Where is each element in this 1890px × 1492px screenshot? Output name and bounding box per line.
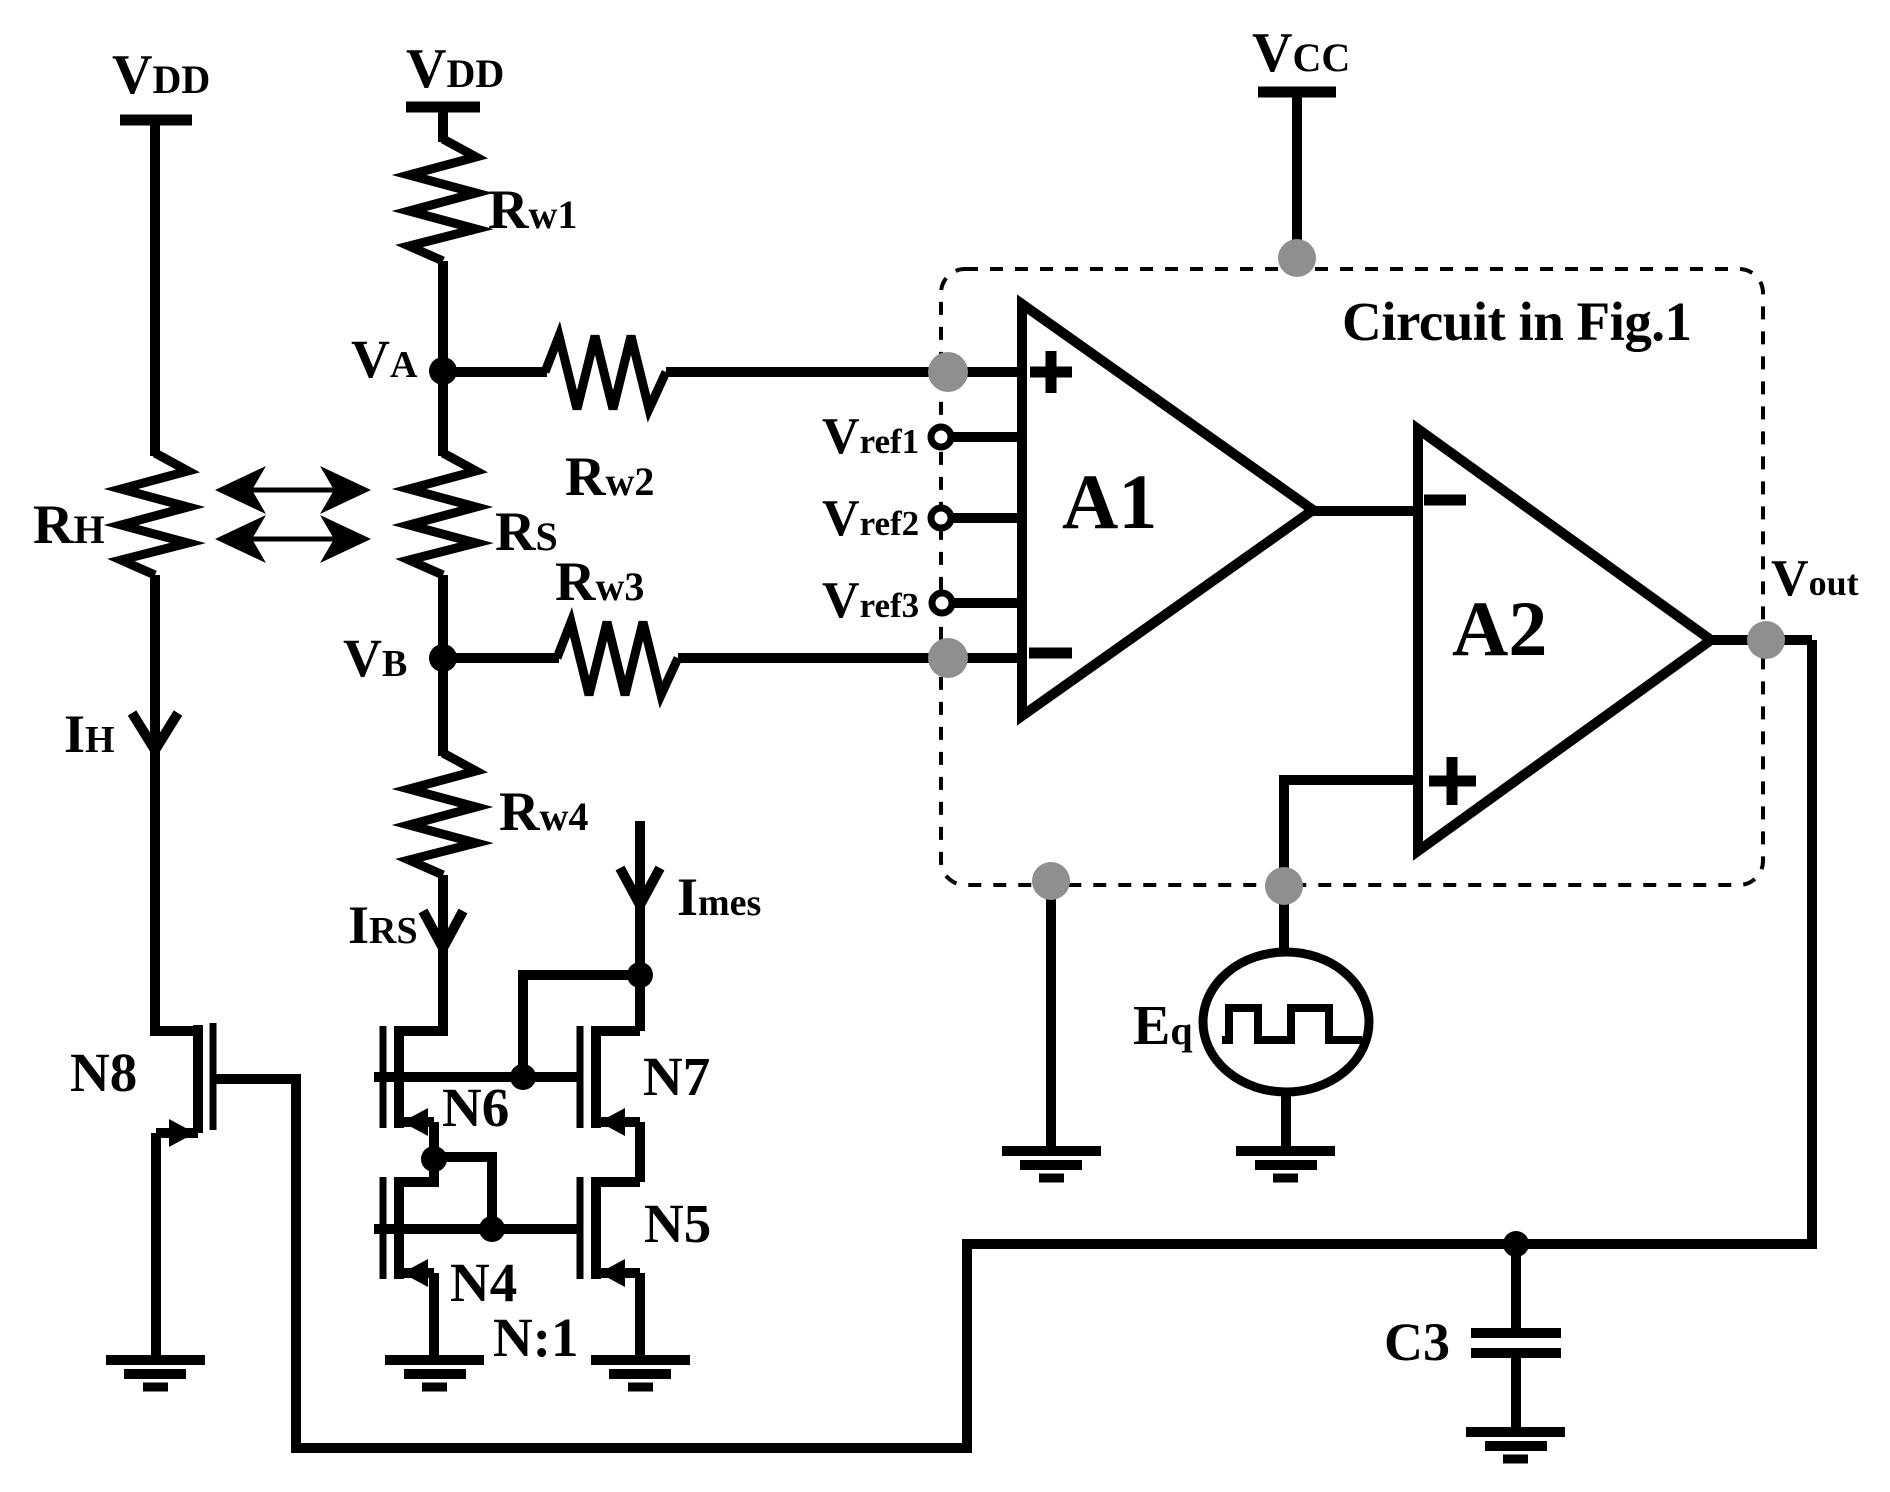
pin Vref3 — [932, 593, 1022, 613]
power symbol VDD (middle rail) — [406, 102, 480, 113]
resistor Rw3 — [557, 622, 678, 695]
wire A1 output to A2 minus input — [1310, 506, 1418, 516]
wire RS to node VB — [438, 575, 448, 658]
wire N8 source to ground — [151, 1133, 161, 1356]
current arrow IH — [132, 713, 178, 750]
resistor RH — [121, 453, 188, 575]
wire A2 plus input to Eq — [1284, 780, 1418, 890]
resistor RS — [409, 453, 476, 575]
op-amp A2 — [1418, 429, 1711, 851]
transistor N5 — [580, 1177, 640, 1287]
svg-text:N4: N4 — [450, 1252, 517, 1313]
plus sign A2 — [1429, 757, 1476, 805]
node on gate net N4-N5 — [479, 1216, 505, 1242]
ground (N5) — [591, 1360, 690, 1387]
svg-text:N:1: N:1 — [493, 1307, 579, 1368]
wire RH to N8 drain — [155, 575, 196, 1031]
transistor N4 — [383, 1177, 434, 1287]
current arrow IRS — [423, 911, 463, 948]
wire N6 source down — [429, 1122, 439, 1160]
resistor Rw1 — [409, 139, 476, 261]
node on Imes wire — [627, 962, 653, 988]
wire diode-connect N4 — [434, 1157, 492, 1229]
coupling arrow (upper double-headed) — [215, 466, 371, 514]
pin Vref1 — [931, 427, 1022, 447]
node on gate net — [510, 1064, 536, 1090]
wire N4 source to ground — [429, 1273, 439, 1356]
node dot VCC on dashed boundary — [1278, 239, 1316, 277]
power symbol VCC — [1258, 87, 1336, 98]
minus sign A2 — [1424, 495, 1466, 506]
wire dashed-box ground stub — [1046, 881, 1056, 1151]
wire Eq to ground — [1281, 1092, 1291, 1151]
transistor N7 — [580, 1026, 640, 1136]
wire C3 to ground — [1511, 1353, 1521, 1432]
svg-text:C3: C3 — [1384, 1312, 1450, 1372]
wire Rw3 to A1 minus input — [678, 653, 1022, 663]
coupling arrow (lower double-headed) — [215, 515, 371, 563]
node (N6 source / N4 drain) — [421, 1146, 447, 1172]
wire Rw2 to A1 plus input — [666, 367, 1022, 377]
svg-text:A2: A2 — [1452, 585, 1547, 672]
resistor Rw4 — [409, 753, 476, 875]
wire N7 source to N5 drain — [635, 1122, 645, 1182]
svg-text:N6: N6 — [442, 1077, 509, 1138]
capacitor C3 — [1471, 1333, 1561, 1353]
dashed box Circuit in Fig.1 — [941, 269, 1763, 885]
wire VDD-left down to RH — [150, 120, 160, 456]
wire VDD-mid to Rw1 — [438, 107, 448, 142]
wire N5 source to ground — [635, 1273, 645, 1356]
wire A2 output to Vout — [1708, 635, 1812, 645]
ground (N8) — [106, 1360, 205, 1387]
node dot on dashed boundary (VA line) — [928, 352, 968, 392]
wire node to N4 drain — [401, 1159, 434, 1182]
minus sign A1 — [1029, 648, 1072, 659]
gate net N6-N7 — [374, 1072, 580, 1082]
op-amp A1 — [1022, 304, 1313, 716]
source Eq — [1203, 952, 1369, 1092]
node Vout — [1747, 621, 1785, 659]
svg-text:N5: N5 — [644, 1193, 711, 1254]
ground (C3) — [1466, 1432, 1565, 1459]
svg-text:A1: A1 — [1062, 458, 1157, 545]
wire node to C3 — [1511, 1244, 1521, 1330]
pin Vref2 — [931, 508, 1022, 528]
wire Rw4 to N6 drain — [401, 875, 443, 1031]
wire node to Eq source — [1279, 886, 1289, 955]
transistor N6 — [383, 1026, 434, 1136]
ground (box stub) — [1002, 1151, 1101, 1178]
power symbol VDD (left rail) — [120, 115, 192, 126]
current arrow Imes — [620, 868, 660, 905]
wire gate net to Imes node — [523, 975, 640, 1077]
transistor N8 — [156, 1023, 213, 1147]
node VA — [429, 357, 457, 385]
resistor Rw2 — [545, 336, 666, 409]
ground (N4) — [385, 1360, 484, 1387]
node VB — [429, 644, 457, 672]
ground (Eq) — [1236, 1151, 1335, 1178]
node dot on dashed boundary (Eq line) — [1265, 867, 1303, 905]
node dot on dashed boundary (ground stub) — [1032, 862, 1070, 900]
current source wire Imes — [635, 821, 645, 1031]
wire N8 gate to bottom net — [216, 640, 1812, 1448]
gate net N4-N5 — [374, 1224, 580, 1234]
svg-text:Circuit in Fig.1: Circuit in Fig.1 — [1342, 291, 1692, 352]
wire VA to Rw2 — [443, 367, 547, 377]
svg-text:N7: N7 — [643, 1046, 710, 1107]
node (C3 tap on bottom net) — [1503, 1231, 1529, 1257]
wire VB to Rw3 — [443, 653, 559, 663]
wire VA to RS — [438, 371, 448, 456]
wire VB to Rw4 — [438, 658, 448, 756]
node dot on dashed boundary (VB line) — [928, 638, 968, 678]
svg-text:N8: N8 — [70, 1042, 137, 1103]
wire Rw1 to node VA — [438, 261, 448, 372]
wire VCC to dashed box — [1292, 92, 1302, 262]
plus sign A1 — [1030, 351, 1072, 393]
